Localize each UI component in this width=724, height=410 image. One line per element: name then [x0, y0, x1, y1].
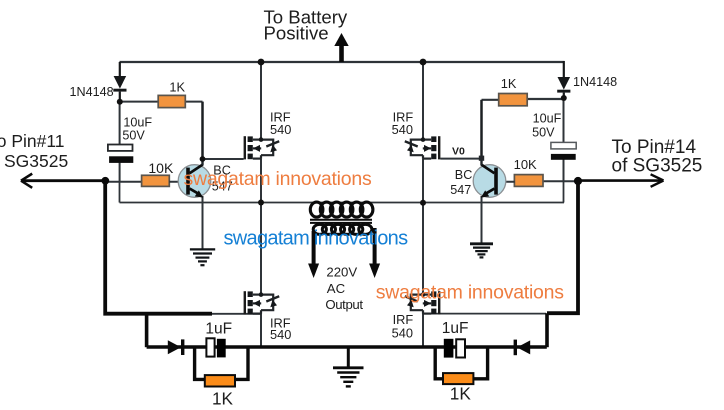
mosfet M4 IRF540 (lower right): [405, 291, 441, 314]
wire: upper-right MOSFET source down: [422, 159, 424, 203]
ground (left BC547 emitter): [190, 249, 215, 265]
ground (right BC547 emitter): [470, 244, 493, 258]
wire: lower-right MOSFET drain up to primary rail: [422, 203, 424, 295]
svg-text:220V: 220V: [326, 265, 357, 280]
wire: right BC547 emitter ground stub: [481, 196, 483, 244]
node: left gate/collector junction: [200, 156, 206, 162]
wire: bottom rail: [147, 345, 547, 349]
wire: left BC547 emitter ground stub: [202, 196, 204, 250]
mosfet M2 IRF540 (upper right): [405, 136, 441, 159]
svg-text:540: 540: [392, 325, 413, 340]
node: rail junction right: [420, 59, 427, 66]
node: rail junction left: [258, 59, 265, 66]
svg-text:SG3525: SG3525: [4, 151, 68, 171]
svg-text:10uF: 10uF: [123, 115, 152, 129]
svg-text:1N4148: 1N4148: [70, 85, 114, 99]
svg-text:1uF: 1uF: [205, 321, 232, 338]
wire: pin11 lead with arrow: [21, 174, 105, 188]
wire: lower-right MOSFET gate lead (thin part): [422, 313, 546, 315]
wire: pin14 node horizontal (from 10K): [543, 180, 578, 182]
node: primary rail right junction: [420, 200, 426, 206]
resistor R2 1K (top right): [499, 94, 528, 106]
wire: pin14 lead with arrow: [578, 174, 664, 187]
svg-text:540: 540: [270, 122, 291, 137]
wire: upper-left MOSFET gate lead: [203, 158, 244, 160]
wire: lower-right MOSFET source to bottom rail: [422, 314, 424, 347]
svg-text:1K: 1K: [450, 384, 472, 404]
wire: right 10uF cap bottom lead: [563, 160, 565, 182]
svg-text:50V: 50V: [532, 125, 555, 139]
wire: left 1K parallel loop: [195, 347, 248, 379]
wire: upper-left MOSFET source down: [260, 159, 262, 203]
svg-text:Positive: Positive: [264, 23, 329, 44]
capacitor C2 10uF 50V (right): [551, 142, 576, 159]
mosfet M3 IRF540 (lower left): [244, 291, 280, 314]
diode D1 1N4148 (top left): [113, 62, 126, 102]
wire: upper-left MOSFET drain to rail: [260, 62, 262, 140]
wire: top positive supply rail: [120, 61, 565, 63]
wire: lower-left MOSFET source to bottom rail: [260, 314, 262, 347]
node: right gate/collector junction: [479, 156, 484, 161]
wire: lower-left MOSFET drain up to primary rail: [260, 203, 262, 295]
svg-text:Output: Output: [325, 297, 363, 312]
transistor Q1 BC547 (left): [169, 159, 210, 198]
transistor Q2 BC547 (right): [473, 159, 515, 198]
resistor R6 1K (bottom right): [443, 373, 473, 384]
diode D2 1N4148 (top right): [557, 61, 570, 99]
svg-text:V0: V0: [452, 146, 465, 158]
svg-text:BC: BC: [455, 168, 473, 182]
svg-text:10K: 10K: [148, 160, 174, 176]
wire: thick right feedback run (pin14 node down and across): [547, 182, 578, 313]
wire: secondary right output arrow: [369, 228, 380, 278]
battery arrow (To Battery Positive): [334, 33, 348, 62]
capacitor C3 1uF (bottom left): [206, 338, 225, 357]
node: primary rail left junction: [258, 200, 264, 206]
resistor R1 1K (top left): [158, 95, 185, 107]
wire: center horizontal net (transformer primary rail): [120, 202, 565, 204]
wire: thick left feedback run (pin11 node down and across): [105, 182, 212, 314]
wire: secondary left output arrow: [308, 231, 319, 278]
svg-text:540: 540: [270, 327, 291, 342]
wire: right 1K parallel loop: [435, 347, 487, 379]
ground (center bottom): [333, 368, 364, 387]
wire: left 10uF cap top lead: [119, 102, 121, 145]
svg-text:1K: 1K: [501, 76, 517, 91]
resistor R5 1K (bottom left): [205, 375, 235, 386]
svg-text:swagatam innovations: swagatam innovations: [376, 281, 564, 303]
node: pin14 junction: [574, 177, 582, 185]
svg-text:1N4148: 1N4148: [573, 75, 617, 89]
svg-text:swagatam innovations: swagatam innovations: [184, 168, 372, 190]
svg-text:10uF: 10uF: [533, 112, 562, 126]
svg-text:swagatam innovations: swagatam innovations: [224, 228, 409, 250]
wire: right 1K resistor leads: [482, 98, 564, 101]
wire: right riser joining pin14 net to primary rail: [563, 181, 565, 203]
transformer T1 core: [310, 220, 372, 223]
wire: right 10uF cap top lead: [563, 98, 565, 143]
svg-text:1K: 1K: [212, 389, 234, 409]
wire: right drop to bottom diode branch: [545, 313, 549, 347]
wire: center ground stub: [347, 347, 350, 367]
svg-text:540: 540: [392, 122, 413, 137]
svg-text:547: 547: [450, 183, 471, 197]
resistor R3 10K (left): [142, 175, 170, 186]
wire: left 10uF cap bottom lead: [119, 163, 121, 183]
wire: upper-right MOSFET gate lead: [440, 158, 481, 160]
wire: upper-right MOSFET drain to rail: [422, 62, 424, 140]
resistor R4 10K (right): [514, 175, 543, 187]
wire: left drop to bottom diode branch: [145, 314, 149, 348]
svg-text:10K: 10K: [514, 157, 537, 172]
wire: left riser joining pin11 net to primary rail: [119, 182, 121, 203]
wire: pin11 node horizontal (to 10K): [105, 181, 169, 183]
svg-text:1K: 1K: [169, 80, 185, 95]
svg-text:AC: AC: [327, 281, 346, 296]
wire: left 1K resistor leads: [120, 101, 203, 103]
transformer T1 secondary winding: [313, 224, 372, 234]
transformer T1 primary winding: [310, 202, 373, 217]
capacitor C1 10uF 50V (left): [108, 145, 133, 163]
svg-text:of SG3525: of SG3525: [612, 156, 703, 177]
node: pin11 junction: [101, 177, 109, 185]
wire: lower-left MOSFET gate lead (thin part): [211, 313, 262, 315]
diode D4 (bottom right): [514, 340, 531, 356]
node: left diode/cap junction: [117, 99, 123, 105]
mosfet M1 IRF540 (upper left): [244, 136, 280, 159]
svg-text:To Pin#11: To Pin#11: [0, 131, 65, 151]
diode D3 (bottom left): [168, 339, 185, 355]
capacitor C4 1uF (bottom right): [444, 339, 465, 358]
svg-text:50V: 50V: [122, 128, 145, 142]
node: right diode/cap junction: [561, 95, 567, 101]
svg-text:1uF: 1uF: [442, 320, 469, 337]
